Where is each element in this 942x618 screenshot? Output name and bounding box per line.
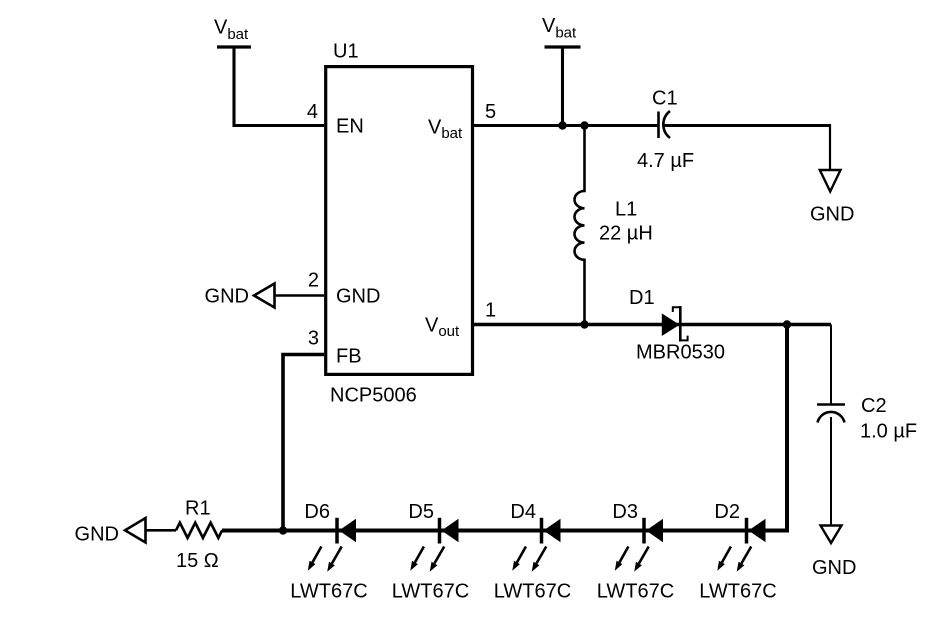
LED D3 [597,501,674,603]
LED D6 [290,501,367,603]
svg-text:U1: U1 [333,41,359,63]
svg-text:5: 5 [485,101,496,123]
diode D1 (Schottky MBR0530) [629,287,725,364]
svg-text:GND: GND [810,204,854,226]
svg-text:EN: EN [336,116,364,138]
svg-text:GND: GND [812,557,856,579]
svg-text:D2: D2 [714,501,740,523]
ground symbol at pin 2 [205,284,275,308]
svg-text:15 Ω: 15 Ω [176,550,219,572]
wire pin2 GND [275,294,325,297]
svg-text:LWT67C: LWT67C [290,581,367,603]
svg-text:4.7 µF: 4.7 µF [637,150,694,172]
node at LED-string tap [783,320,791,328]
LED D4 [494,501,571,603]
inductor L1 [575,124,653,325]
svg-text:L1: L1 [615,199,637,221]
svg-text:1.0 µF: 1.0 µF [860,421,917,443]
svg-text:4: 4 [307,101,318,123]
wire down stub to GND (top right) [829,124,831,170]
svg-text:1: 1 [485,300,496,322]
svg-text:NCP5006: NCP5006 [330,385,417,407]
capacitor C2 [817,395,917,443]
ground symbol (bottom left) [75,518,146,546]
resistor R1 [176,498,222,573]
wire LED string (down from D1 node, across LED chain) [222,323,787,531]
svg-text:D4: D4 [510,501,536,523]
node at Vbat drop [558,121,566,129]
svg-text:Vbat: Vbat [542,15,577,42]
svg-text:FB: FB [336,346,362,368]
svg-text:2: 2 [308,270,319,292]
wire pin 1 Vout to C2 corner [474,323,831,326]
svg-text:LWT67C: LWT67C [699,581,776,603]
wire Vbat-left to pin 4 EN [234,47,324,126]
wire C1 to GND corner [664,124,830,127]
capacitor C1 [637,88,694,173]
svg-text:LWT67C: LWT67C [494,581,571,603]
wire C2 to GND (bottom right) [830,417,832,526]
LED D5 [392,501,469,603]
svg-text:C1: C1 [652,88,678,110]
svg-text:22 µH: 22 µH [599,223,653,245]
svg-text:D3: D3 [612,501,638,523]
svg-text:R1: R1 [185,498,211,520]
wire R1 to GND arrow [145,529,176,532]
LED D2 [699,501,776,603]
node FB / R1 junction [279,526,287,534]
svg-text:GND: GND [75,524,119,546]
supply Vbat (left) symbol [214,17,251,48]
svg-text:GND: GND [336,286,380,308]
svg-text:MBR0530: MBR0530 [636,342,725,364]
svg-text:C2: C2 [861,395,887,417]
svg-text:D1: D1 [629,287,655,309]
ground symbol (bottom right) [812,526,856,580]
op-amp U1 (NCP5006 boost driver) body [326,67,473,375]
node L1 bottom [580,320,588,328]
node at L1 tap [580,121,588,129]
wire C2 branch down [830,325,832,405]
svg-text:GND: GND [205,286,249,308]
svg-text:D5: D5 [408,501,434,523]
wire FB drop [283,355,324,531]
supply Vbat (middle) symbol [542,15,581,47]
wire pin 5 to C1 [472,124,659,127]
wire Vbat-mid drop [561,47,564,126]
svg-text:LWT67C: LWT67C [597,581,674,603]
svg-text:3: 3 [308,328,319,350]
svg-text:LWT67C: LWT67C [392,581,469,603]
svg-text:D6: D6 [304,501,330,523]
svg-text:Vbat: Vbat [214,17,249,44]
ground symbol (top right) [810,170,854,226]
